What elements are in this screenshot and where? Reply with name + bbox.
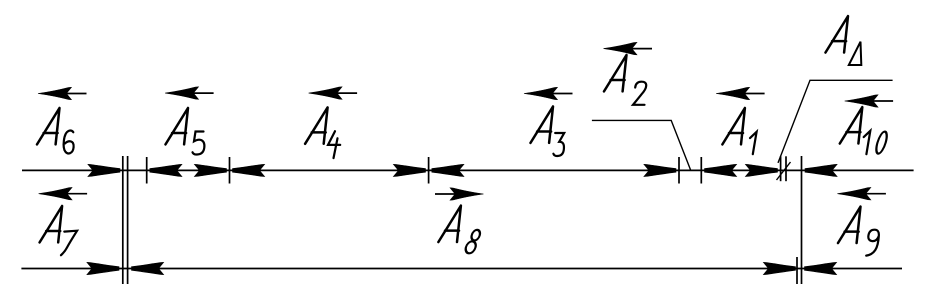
label A10 letter	[840, 107, 863, 143]
A3 left arrow on main line	[432, 164, 464, 176]
label A4 letter	[305, 107, 328, 143]
label A2 subscript 2	[633, 82, 646, 105]
A8 right arrow on bottom line	[763, 262, 795, 274]
tick T1	[146, 157, 148, 184]
A4 left arrow on main line	[233, 164, 265, 176]
label A8 subscript 8	[464, 230, 481, 253]
label A1 letter	[722, 108, 745, 144]
A9 left arrow on bottom line	[805, 262, 837, 274]
main dimension chain line	[22, 169, 914, 171]
A1 left arrow on main line	[705, 164, 737, 176]
A5 left arrow on main line	[150, 164, 182, 176]
A4 right arrow on main line	[393, 164, 425, 176]
label A-delta letter	[826, 16, 849, 52]
label A5 subscript 5	[193, 132, 205, 155]
A4 floating direction arrow	[309, 87, 358, 99]
tick T4	[678, 157, 680, 184]
tick T2	[229, 157, 231, 184]
label A7 letter	[40, 206, 63, 242]
bottom tick near right boundary	[796, 257, 798, 284]
tick T3	[428, 157, 430, 184]
label A6 subscript 6	[64, 131, 74, 154]
A3 right arrow on main line	[644, 164, 676, 176]
label A6 letter	[37, 108, 60, 144]
A-delta slash across double tick	[777, 162, 791, 180]
A3 floating direction arrow	[524, 87, 573, 99]
bottom dimension line	[21, 268, 902, 270]
A2 floating direction arrow	[604, 42, 653, 54]
label A4 subscript 4	[328, 131, 340, 158]
A9 floating direction arrow	[837, 188, 886, 200]
label A-delta subscript triangle	[849, 42, 862, 65]
label A9 subscript 9	[866, 230, 879, 256]
A8 left arrow on bottom line	[132, 262, 164, 274]
label A3 subscript 3	[553, 133, 564, 156]
A2 leader line	[592, 120, 691, 169]
A7 floating direction arrow	[39, 188, 88, 200]
A10 floating direction arrow	[845, 95, 894, 107]
label A9 letter	[838, 207, 861, 243]
label A10 subscript 1	[864, 131, 871, 154]
A5 right arrow on main line	[194, 164, 226, 176]
left double boundary line	[122, 156, 124, 284]
A-delta double tick mark	[780, 156, 782, 181]
A1 floating direction arrow	[716, 87, 765, 99]
right long boundary line	[801, 156, 803, 284]
tick T5	[700, 157, 702, 184]
A10 left arrow on main line	[805, 164, 837, 176]
A7 arrow on bottom line pointing right	[87, 262, 119, 274]
A8 floating direction arrow pointing right	[435, 188, 484, 200]
label A5 letter	[166, 108, 189, 144]
label A3 letter	[531, 106, 554, 142]
A6 floating direction arrow	[38, 87, 87, 99]
A1 right arrow on main line	[745, 164, 777, 176]
label A8 letter	[438, 206, 461, 242]
label A10 subscript 0	[874, 132, 889, 154]
A6 arrow on main line pointing right	[88, 164, 120, 176]
label A2 letter	[604, 55, 627, 91]
A5 floating direction arrow	[165, 87, 214, 99]
A-delta leader line	[778, 80, 893, 163]
label A1 subscript 1	[750, 132, 757, 154]
label A7 subscript 7	[61, 231, 77, 256]
